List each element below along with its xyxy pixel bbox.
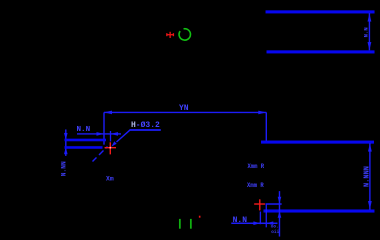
svg-text:Xm: Xm <box>106 175 114 182</box>
svg-text:Xmm R: Xmm R <box>247 182 265 190</box>
left vdim arrow down (outside top) <box>64 133 68 140</box>
leader line <box>116 130 129 142</box>
pad hole (green circle) <box>179 29 190 40</box>
svg-text:Xmm R: Xmm R <box>247 163 264 171</box>
svg-text:oii: oii <box>271 230 279 235</box>
leader arrowhead to hole <box>111 141 116 146</box>
svg-text:N.N: N.N <box>362 27 369 37</box>
drill cross 2 (red) <box>254 199 265 210</box>
left vertical dimension line <box>65 129 67 156</box>
top-right dim arrow down <box>368 42 372 50</box>
right vertical dimension line <box>369 143 371 210</box>
N.N dim arrow right-pointing (outside left) <box>96 132 104 136</box>
thick horizontal line lower (to hole center) <box>64 146 102 149</box>
YN dim right arrow <box>258 111 266 115</box>
bottom green bar 2 <box>190 219 192 229</box>
N.N small dimension line <box>77 133 121 135</box>
bottom red dot <box>199 216 201 218</box>
bottom horizontal dimension line with underline <box>231 222 277 224</box>
origin cross marker (red plus) <box>167 32 174 38</box>
svg-text:oo.: oo. <box>271 225 279 230</box>
bottom-right edge line 2 (bottom) <box>263 209 374 212</box>
N.N dim arrow left-pointing (outside right) <box>110 132 118 136</box>
YN dim left arrow <box>104 111 112 115</box>
drill cross 1 center dot <box>109 147 111 149</box>
svg-text:N.N: N.N <box>76 126 90 134</box>
extension from cross 2 to right <box>265 203 281 205</box>
drill cross 1 (red) <box>105 142 116 154</box>
small vdim arrow down (above) <box>278 197 282 204</box>
svg-text:YN: YN <box>179 104 189 113</box>
YN left extension line <box>103 112 105 144</box>
extension line down from cross 2 <box>259 212 261 225</box>
svg-text:-Ø3.2: -Ø3.2 <box>136 121 160 130</box>
top-right vertical dimension line <box>368 13 370 50</box>
leader underline <box>129 129 160 131</box>
svg-text:N.NNN: N.NNN <box>364 166 372 187</box>
bottom green bar 1 <box>179 219 181 229</box>
svg-text:N.NN: N.NN <box>61 161 68 176</box>
right vdim arrow up <box>368 143 372 151</box>
top-right dim arrow up <box>368 13 372 21</box>
small vdim arrow up (below) <box>278 211 282 218</box>
small vertical dimension line (bottom right) <box>278 191 280 236</box>
dashed diagonal centerline through hole <box>92 146 107 161</box>
extension stub at hole center x <box>109 131 111 142</box>
right vdim arrow down <box>368 201 372 209</box>
top-right edge line 1 <box>266 10 375 13</box>
top-right edge line 2 <box>267 50 375 53</box>
bottom h-dim arrow right-pointing <box>253 221 260 225</box>
left vdim arrow up (outside bottom) <box>64 147 68 154</box>
thick horizontal line upper (pad edge) <box>64 139 106 142</box>
extension line down from shape corner <box>265 205 267 228</box>
YN dimension line <box>104 111 266 113</box>
svg-text:N.N: N.N <box>233 216 248 225</box>
bottom h-dim arrow left-pointing <box>266 221 273 225</box>
YN right extension line <box>265 112 267 141</box>
bottom-right edge line 1 (top) <box>261 141 374 144</box>
